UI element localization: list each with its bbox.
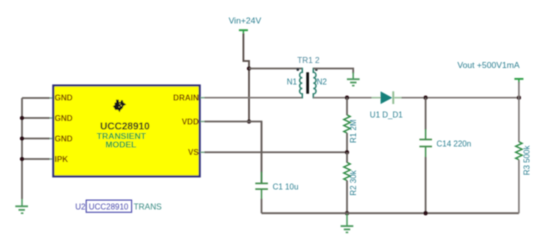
power symbol Vin: [239, 30, 248, 34]
junction dot Vout corner: [517, 96, 521, 100]
pin label DRAIN: [173, 94, 199, 103]
IC name UCC28910: [100, 121, 150, 132]
pin label GND 1: [55, 94, 73, 103]
resistor R2: [344, 152, 350, 213]
winding N2: [313, 68, 316, 99]
TI logo: [113, 100, 126, 113]
pin label VS: [188, 148, 199, 157]
wire GND pin 1: [22, 97, 53, 99]
IC U2 UCC28910 body: [53, 86, 199, 177]
svg-text:C1 10u: C1 10u: [273, 182, 299, 191]
junction dot R1 top: [345, 96, 349, 100]
svg-text:IPK: IPK: [55, 155, 69, 164]
svg-text:MODEL: MODEL: [105, 140, 136, 150]
wire Vin drop: [243, 34, 249, 122]
svg-text:VS: VS: [188, 148, 199, 157]
junction dot left bus IPK: [20, 157, 24, 161]
junction dot left bus GND3: [20, 136, 24, 140]
net label Vin+24V: [229, 16, 262, 26]
wire to N1 top: [249, 68, 302, 70]
svg-text:U1 D_D1: U1 D_D1: [370, 111, 403, 120]
svg-text:U2: U2: [75, 202, 86, 211]
IC label MODEL: [105, 140, 136, 150]
svg-text:C14 220n: C14 220n: [437, 140, 472, 149]
core: [306, 72, 309, 93]
wire diode to Vout corner: [402, 97, 519, 99]
capacitor C1: [255, 122, 268, 214]
wire N2 top to ground: [313, 69, 353, 74]
net label Vout +500V1mA: [457, 60, 520, 70]
capacitor C14: [419, 98, 432, 214]
junction dot Vin transformer branch: [247, 66, 251, 70]
ground left: [15, 199, 28, 213]
wire N2 bottom to diode: [313, 97, 371, 99]
svg-text:N1: N1: [287, 78, 298, 87]
pin label IPK: [55, 155, 69, 164]
svg-text:Vin+24V: Vin+24V: [229, 16, 262, 26]
wire Vout stub: [518, 82, 520, 98]
wire GND pin 3: [22, 138, 53, 140]
junction dot VDD node: [247, 119, 251, 123]
IC label TRANSIENT: [97, 131, 147, 141]
label C1 10u: [273, 182, 299, 191]
ground transformer: [347, 73, 360, 86]
label R3 500k: [523, 145, 532, 176]
wire VS run: [200, 151, 347, 153]
phase dot N1: [297, 68, 300, 71]
power symbol Vout: [514, 79, 523, 83]
svg-text:R2 30k: R2 30k: [349, 169, 358, 195]
label R2 30k: [349, 169, 358, 195]
wire VDD run: [200, 122, 261, 184]
svg-text:GND: GND: [55, 114, 73, 123]
svg-text:N2: N2: [317, 78, 328, 87]
svg-text:GND: GND: [55, 135, 73, 144]
label N1: [287, 78, 298, 87]
resistor R1: [344, 98, 350, 153]
reference box UCC28910: [86, 200, 131, 212]
junction dot VS node: [345, 150, 349, 154]
wire left bus vertical: [21, 98, 23, 199]
wire DRAIN to N1 bottom: [200, 97, 302, 99]
pin label VDD: [182, 117, 199, 126]
svg-text:DRAIN: DRAIN: [173, 94, 199, 103]
pin label GND 3: [55, 135, 73, 144]
ground R2: [341, 213, 354, 232]
svg-text:UCC28910: UCC28910: [89, 203, 129, 212]
junction dot C14 bottom: [423, 211, 427, 215]
svg-text:R3 500k: R3 500k: [523, 145, 532, 176]
diode U1: [372, 91, 402, 104]
transformer TR1: [297, 68, 318, 99]
label TR1 2: [297, 56, 320, 65]
label C14 220n: [437, 140, 472, 149]
pin label GND 2: [55, 114, 73, 123]
junction dot C14 top: [423, 96, 427, 100]
phase dot N2: [315, 68, 318, 71]
reference label TRANS: [134, 201, 163, 211]
wire GND pin 2: [22, 117, 53, 119]
label R1 2M: [349, 119, 358, 143]
svg-text:GND: GND: [55, 94, 73, 103]
wire IPK pin: [22, 158, 53, 160]
reference label U2: [75, 202, 86, 211]
svg-text:VDD: VDD: [182, 117, 199, 126]
wire bottom run: [262, 212, 519, 214]
winding N1: [300, 68, 303, 99]
label U1 D_D1: [370, 111, 403, 120]
svg-text:TR1 2: TR1 2: [297, 56, 320, 65]
resistor R3: [516, 98, 522, 214]
svg-text:TRANS: TRANS: [134, 201, 163, 211]
label N2: [317, 78, 328, 87]
junction dot left bus GND2: [20, 116, 24, 120]
svg-text:R1 2M: R1 2M: [349, 119, 358, 143]
svg-text:Vout +500V1mA: Vout +500V1mA: [457, 60, 520, 70]
junction dot R2 bottom: [345, 211, 349, 215]
